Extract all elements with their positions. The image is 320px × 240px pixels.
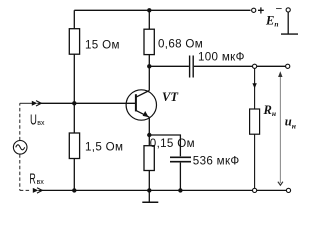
terminal: output bottom-right xyxy=(286,188,290,192)
node: top rail / collector column xyxy=(147,8,151,12)
wire: collector column xyxy=(148,10,150,190)
label 0,15 Ом xyxy=(150,137,195,150)
resistor R3 0,68 Ом xyxy=(144,29,154,54)
svg-text:+: + xyxy=(258,4,265,17)
svg-text:0,68 Ом: 0,68 Ом xyxy=(158,38,203,51)
label VT xyxy=(162,90,179,104)
svg-text:VT: VT xyxy=(162,90,179,104)
wire: base lead xyxy=(41,102,136,104)
ground (common, below bottom rail) xyxy=(142,190,158,202)
voltage arrow uн xyxy=(278,71,283,185)
wire: load branch to bottom rail xyxy=(254,134,256,188)
node: collector / C1 junction xyxy=(147,64,151,68)
node: bottom rail / C2 xyxy=(178,188,182,192)
label 536 мкФ xyxy=(193,154,240,167)
wire: top rail xyxy=(74,9,250,11)
ac source (signal generator) xyxy=(13,141,27,155)
svg-text:100 мкФ: 100 мкФ xyxy=(198,50,245,63)
resistor R2 1,5 Ом xyxy=(69,133,79,159)
svg-text:15 Ом: 15 Ом xyxy=(85,38,120,51)
wire: dashed source lead (lower) xyxy=(20,154,31,190)
terminal: output top-right xyxy=(286,64,290,68)
node: emitter junction xyxy=(147,133,151,137)
svg-text:U: U xyxy=(30,113,37,129)
svg-text:536 мкФ: 536 мкФ xyxy=(193,154,240,167)
svg-text:вх: вх xyxy=(37,118,44,127)
label 1,5 Ом xyxy=(85,140,123,153)
arrow head (Rвх) xyxy=(33,188,43,193)
wire: load branch with current arrow xyxy=(252,69,256,110)
label Uвх xyxy=(30,113,45,129)
resistor R4 0,15 Ом xyxy=(144,146,154,171)
wire: between output terminals (top) xyxy=(257,65,286,67)
label 15 Ом xyxy=(85,38,120,51)
capacitor C2 536 мкФ xyxy=(149,135,191,190)
label 0,68 Ом xyxy=(158,38,203,51)
svg-text:вх: вх xyxy=(37,177,45,186)
label 100 мкФ xyxy=(198,50,245,63)
svg-text:1,5 Ом: 1,5 Ом xyxy=(85,140,123,153)
terminal: supply − xyxy=(276,3,291,16)
label Rвх xyxy=(29,171,44,187)
node: bottom rail / divider xyxy=(72,188,76,192)
terminal: output bottom-left xyxy=(253,188,257,192)
resistor R1 15 Ом xyxy=(69,29,79,55)
transistor VT xyxy=(126,90,156,120)
terminal: output top-left xyxy=(253,64,257,68)
wire: bottom rail xyxy=(42,189,286,191)
svg-text:−: − xyxy=(276,3,283,16)
terminal: supply + xyxy=(252,4,265,17)
wire: left column (base divider branch) xyxy=(73,10,75,190)
node: bottom rail / ground xyxy=(147,188,151,192)
label Eп xyxy=(265,13,279,28)
wire: input lead with arrow (Uвх) xyxy=(20,101,42,106)
svg-text:0,15 Ом: 0,15 Ом xyxy=(150,137,195,150)
svg-text:R: R xyxy=(29,171,35,187)
ground at Eп negative terminal xyxy=(281,12,298,34)
resistor Rн (load) xyxy=(250,109,260,134)
label Rн xyxy=(263,103,277,118)
node: base junction xyxy=(72,101,76,105)
label uн xyxy=(285,114,296,130)
capacitor C1 100 мкФ xyxy=(149,56,252,78)
wire: dashed source lead (upper) xyxy=(19,103,21,140)
